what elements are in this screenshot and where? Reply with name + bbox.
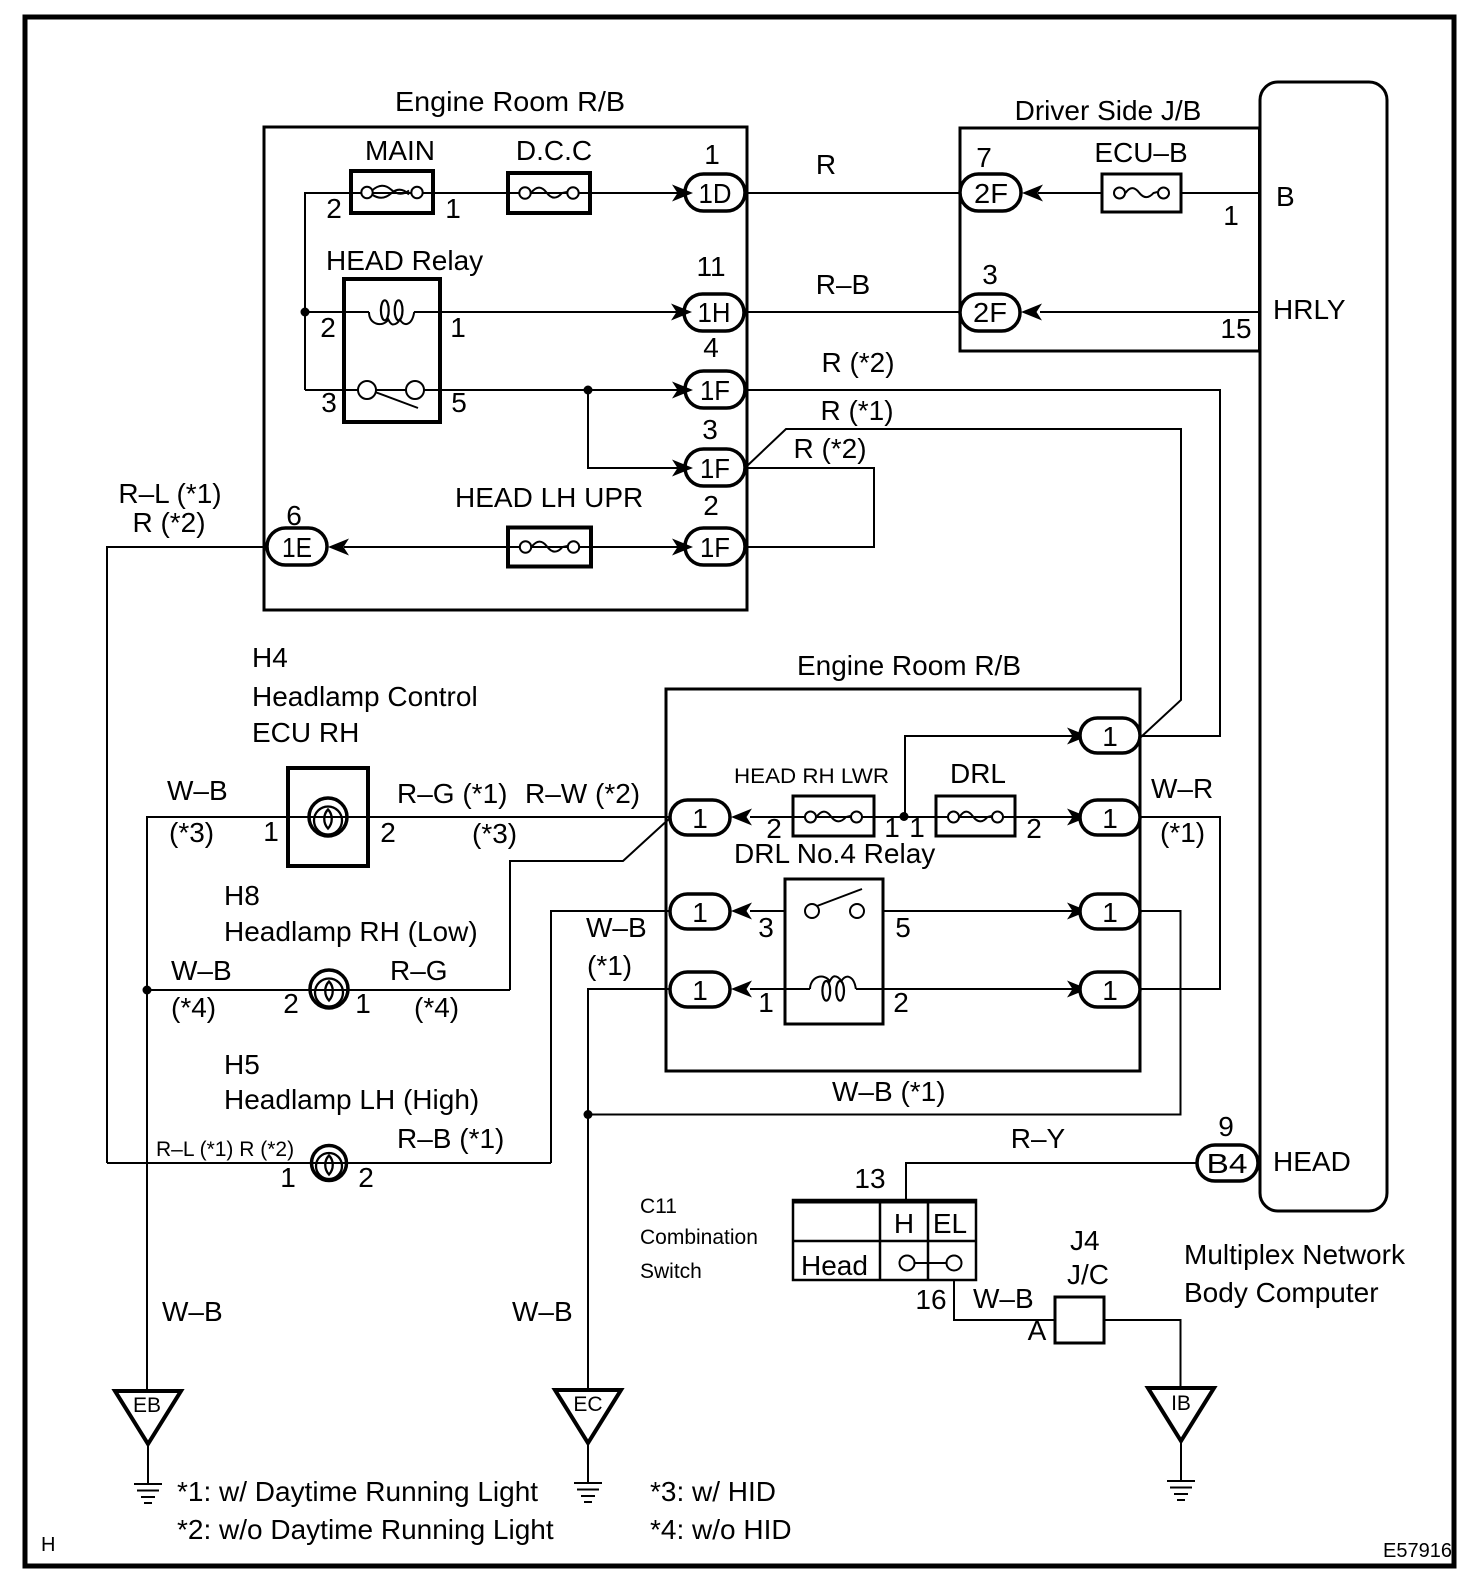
svg-text:R–G (*1): R–G (*1) (397, 778, 507, 809)
svg-text:(*1): (*1) (587, 950, 632, 981)
arrow into 2F pin7 (1022, 185, 1043, 202)
wire coil row left (750, 988, 785, 990)
svg-text:2: 2 (893, 987, 909, 1018)
wire J4 to IB (1104, 1320, 1181, 1388)
fuse MAIN (351, 171, 433, 213)
wire W-B (*1) vertical from switch row (551, 911, 670, 1163)
svg-text:1: 1 (704, 139, 720, 170)
svg-text:13: 13 (854, 1163, 885, 1194)
arrow into 1F pin2 (672, 539, 693, 556)
wire through H4 (288, 816, 670, 818)
pin 16 wire to J4 (954, 1280, 1055, 1320)
wire R-L from 1E to left (107, 547, 267, 1163)
svg-text:A: A (1028, 1315, 1047, 1346)
relay coil DRL (785, 988, 810, 990)
svg-text:2F: 2F (973, 297, 1007, 328)
junction dot switch row (584, 386, 593, 395)
relay HEAD Relay box (344, 279, 440, 422)
svg-text:1F: 1F (700, 453, 730, 484)
ground IB triangle (1148, 1388, 1214, 1441)
svg-text:1F: 1F (700, 532, 730, 563)
wire W-B (*1) from switch row right (588, 911, 1181, 1115)
svg-text:1: 1 (692, 803, 708, 834)
svg-text:Combination: Combination (640, 1226, 758, 1249)
svg-text:H8: H8 (224, 880, 260, 911)
svg-text:Engine Room R/B: Engine Room R/B (797, 650, 1021, 681)
svg-text:E57916: E57916 (1383, 1540, 1452, 1562)
svg-text:W–B: W–B (586, 912, 647, 943)
svg-text:2: 2 (703, 490, 719, 521)
svg-text:W–B (*1): W–B (*1) (832, 1076, 946, 1107)
svg-text:DRL No.4 Relay: DRL No.4 Relay (734, 838, 935, 869)
wire H8 row (147, 989, 510, 991)
wire coil row right (883, 988, 1073, 990)
svg-text:2: 2 (380, 817, 396, 848)
wire W-B left vertical (147, 817, 288, 1391)
bulb H5 (312, 1146, 347, 1181)
junction dot H8 row (143, 986, 152, 995)
arrow out of left 1 coil row (731, 981, 752, 998)
svg-text:H5: H5 (224, 1049, 260, 1080)
svg-text:9: 9 (1218, 1111, 1234, 1142)
arrow out of 1E (328, 539, 349, 556)
svg-text:ECU RH: ECU RH (252, 717, 359, 748)
svg-text:1: 1 (450, 312, 466, 343)
svg-text:1: 1 (692, 897, 708, 928)
svg-text:W–B: W–B (167, 775, 228, 806)
wire 2F7 to ECU-B fuse (1038, 192, 1102, 194)
wire R(*1) from 1F3 to mid box (747, 429, 1181, 737)
svg-text:R (*1): R (*1) (820, 395, 893, 426)
wire R(*2) loop 1F3 to 1F2 (746, 468, 874, 547)
connector 1D (685, 174, 745, 211)
connector 1H (684, 294, 744, 331)
bulb H4 (309, 798, 347, 836)
relay coil (369, 312, 414, 325)
wire MAIN row (305, 193, 678, 390)
svg-text:2: 2 (358, 1162, 374, 1193)
svg-text:MAIN: MAIN (365, 135, 435, 166)
svg-text:3: 3 (758, 912, 774, 943)
fuse DRL (936, 796, 1015, 836)
svg-text:15: 15 (1220, 313, 1251, 344)
svg-text:R–Y: R–Y (1011, 1123, 1066, 1154)
connector 1 right fuse row (1080, 800, 1140, 835)
svg-text:Head: Head (801, 1250, 868, 1281)
wire H8 to fuse row oval (510, 818, 670, 990)
wire switch row left (750, 910, 785, 912)
svg-text:1E: 1E (282, 532, 312, 563)
svg-text:3: 3 (982, 259, 998, 290)
arrow into 1F pin4 (672, 382, 693, 399)
wire coil row to EC (588, 989, 670, 1390)
arrow into 1F pin3 (672, 460, 693, 477)
svg-text:2: 2 (283, 988, 299, 1019)
svg-text:1D: 1D (699, 178, 732, 209)
svg-text:EL: EL (933, 1208, 967, 1239)
svg-text:(*3): (*3) (169, 817, 214, 848)
bulb H8 (310, 970, 348, 1008)
svg-text:16: 16 (915, 1284, 946, 1315)
svg-text:1: 1 (1102, 721, 1118, 752)
svg-text:1H: 1H (698, 297, 731, 328)
svg-text:W–B: W–B (171, 955, 232, 986)
svg-text:4: 4 (703, 332, 719, 363)
svg-text:B: B (1276, 181, 1295, 212)
svg-text:R–L (*1): R–L (*1) (118, 478, 221, 509)
svg-text:1: 1 (445, 193, 461, 224)
junction J4 J/C box (1055, 1297, 1104, 1343)
ground EC triangle (555, 1390, 621, 1443)
fuse D.C.C (508, 173, 590, 213)
svg-text:1: 1 (263, 816, 279, 847)
svg-text:*2: w/o Daytime Running Light: *2: w/o Daytime Running Light (177, 1514, 554, 1545)
svg-text:(*4): (*4) (171, 992, 216, 1023)
arrow out of left 1 fuse row (731, 809, 752, 826)
svg-text:DRL: DRL (950, 758, 1006, 789)
svg-text:Multiplex Network: Multiplex Network (1184, 1239, 1406, 1270)
connector 1F pin2 (685, 528, 745, 565)
svg-text:HRLY: HRLY (1273, 294, 1346, 325)
connector 1 right coil row (1080, 972, 1140, 1007)
arrow out of left 1 switch row (731, 903, 752, 920)
arrow into 2F pin3 (1021, 304, 1042, 321)
svg-text:1: 1 (1102, 803, 1118, 834)
connector 1 right switch row (1080, 894, 1140, 929)
svg-text:H4: H4 (252, 642, 288, 673)
relay switch blade (817, 889, 862, 906)
svg-text:1: 1 (1223, 200, 1239, 231)
svg-text:R–G: R–G (390, 955, 448, 986)
wire R-B 1H to 2F (744, 311, 960, 313)
wire R-Y (906, 1163, 1197, 1200)
connector 1 top right (1080, 718, 1140, 753)
svg-text:R (*2): R (*2) (793, 433, 866, 464)
arrow into 1H (671, 304, 692, 321)
svg-text:1F: 1F (700, 375, 730, 406)
connector 1F pin4 (685, 371, 745, 408)
svg-text:6: 6 (286, 500, 302, 531)
svg-text:HEAD LH UPR: HEAD LH UPR (455, 482, 643, 513)
svg-text:5: 5 (451, 387, 467, 418)
svg-text:W–B: W–B (973, 1283, 1034, 1314)
svg-text:H: H (41, 1534, 55, 1556)
svg-text:2: 2 (320, 312, 336, 343)
svg-text:C11: C11 (640, 1195, 677, 1218)
arrow into 1D (672, 185, 693, 202)
wire H5 row (107, 1162, 551, 1164)
svg-text:R (*2): R (*2) (821, 347, 894, 378)
svg-text:EC: EC (573, 1393, 602, 1416)
svg-text:Headlamp LH (High): Headlamp LH (High) (224, 1084, 479, 1115)
wire relay coil row (305, 311, 369, 313)
arrow into right 1 switch row (1067, 903, 1088, 920)
svg-text:3: 3 (321, 387, 337, 418)
ground EB triangle (115, 1391, 181, 1444)
connector 1 left coil row (670, 972, 730, 1007)
ground EB stem and bars (147, 1444, 149, 1484)
svg-text:Headlamp Control: Headlamp Control (252, 681, 478, 712)
svg-text:(*1): (*1) (1160, 817, 1205, 848)
wire W-R loop right (1139, 817, 1220, 989)
wire ECU-B to B (1181, 192, 1260, 194)
svg-text:R–L (*1) R (*2): R–L (*1) R (*2) (156, 1138, 294, 1161)
svg-text:EB: EB (133, 1394, 161, 1417)
connector 1F pin3 (685, 449, 745, 486)
relay DRL No.4 box (785, 879, 883, 1024)
svg-text:1: 1 (1102, 975, 1118, 1006)
svg-text:*3: w/ HID: *3: w/ HID (650, 1476, 776, 1507)
svg-text:HEAD Relay: HEAD Relay (326, 245, 483, 276)
Engine Room R/B box (middle) (666, 689, 1140, 1071)
connector 2F pin7 (960, 174, 1021, 211)
relay switch blade (375, 392, 418, 408)
Multiplex Network Body Computer rounded box (1260, 82, 1387, 1211)
H4 box (288, 768, 368, 866)
svg-text:IB: IB (1171, 1392, 1191, 1415)
relay switch contacts (805, 904, 819, 918)
wire fuse row (750, 816, 1073, 818)
svg-text:Headlamp RH (Low): Headlamp RH (Low) (224, 916, 478, 947)
wire R 1D to 2F (745, 192, 960, 194)
ground IB stem and bars (1180, 1441, 1182, 1481)
svg-text:R (*2): R (*2) (132, 507, 205, 538)
svg-text:HEAD: HEAD (1273, 1146, 1351, 1177)
svg-text:(*3): (*3) (472, 818, 517, 849)
combination switch table (793, 1200, 976, 1280)
svg-text:11: 11 (696, 251, 725, 282)
svg-text:W–R: W–R (1151, 773, 1213, 804)
arrow into right 1 fuse row (1067, 809, 1088, 826)
svg-text:W–B: W–B (162, 1296, 223, 1327)
Driver Side J/B box (960, 128, 1260, 351)
connector B4 (1197, 1145, 1258, 1181)
svg-text:2: 2 (1026, 813, 1042, 844)
svg-text:1: 1 (280, 1162, 296, 1193)
svg-text:R–B (*1): R–B (*1) (397, 1123, 504, 1154)
svg-text:(*4): (*4) (414, 992, 459, 1023)
wire to top-right connector 1 (905, 736, 1073, 817)
wire switch row right (883, 910, 1073, 912)
arrow into right 1 coil row (1067, 981, 1088, 998)
fuse HEAD LH UPR (508, 528, 591, 567)
connector 1E (267, 528, 327, 565)
switch contacts in table (900, 1256, 915, 1271)
svg-text:R: R (816, 149, 836, 180)
svg-text:2: 2 (326, 193, 342, 224)
svg-text:*1: w/ Daytime Running Light: *1: w/ Daytime Running Light (177, 1476, 538, 1507)
svg-text:Driver Side J/B: Driver Side J/B (1015, 95, 1202, 126)
junction dot W-B (584, 1110, 593, 1119)
svg-text:*4: w/o HID: *4: w/o HID (650, 1514, 792, 1545)
wire R(*2) from 1F4 to mid box (745, 390, 1220, 736)
wire to 1F pin3 (588, 390, 678, 468)
svg-text:7: 7 (976, 142, 992, 173)
wire HRLY to 2F3 (1040, 311, 1260, 313)
svg-text:Switch: Switch (640, 1260, 702, 1283)
svg-text:Body Computer: Body Computer (1184, 1277, 1379, 1308)
svg-text:1: 1 (1102, 897, 1118, 928)
svg-text:Engine Room R/B: Engine Room R/B (395, 86, 625, 117)
connector 1 left fuse row (670, 800, 730, 835)
svg-text:5: 5 (895, 912, 911, 943)
fuse HEAD RH LWR (793, 796, 874, 836)
ground EC stem and bars (587, 1443, 589, 1483)
svg-text:W–B: W–B (512, 1296, 573, 1327)
junction dot relay coil row (301, 308, 310, 317)
svg-text:R–W (*2): R–W (*2) (525, 778, 640, 809)
svg-text:J4: J4 (1070, 1225, 1100, 1256)
svg-text:1: 1 (692, 975, 708, 1006)
svg-text:J/C: J/C (1067, 1259, 1109, 1290)
Engine Room R/B box (top) (264, 127, 747, 610)
connector 2F pin3 (960, 294, 1020, 331)
svg-text:HEAD RH LWR: HEAD RH LWR (734, 765, 889, 788)
svg-text:2F: 2F (974, 178, 1008, 209)
svg-text:B4: B4 (1207, 1148, 1248, 1179)
fuse ECU-B (1102, 174, 1181, 212)
svg-text:3: 3 (702, 414, 718, 445)
svg-text:H: H (894, 1208, 914, 1239)
wire relay switch row (305, 389, 678, 391)
connector 1 left switch row (670, 894, 730, 929)
junction dot fuse row (900, 812, 909, 821)
svg-text:D.C.C: D.C.C (516, 135, 592, 166)
arrow into top-right 1 (1067, 728, 1088, 745)
svg-text:1: 1 (355, 988, 371, 1019)
svg-text:1: 1 (758, 987, 774, 1018)
svg-text:R–B: R–B (816, 269, 870, 300)
wire 1E row (344, 546, 678, 548)
relay switch contacts (358, 381, 376, 399)
svg-text:ECU–B: ECU–B (1094, 137, 1187, 168)
